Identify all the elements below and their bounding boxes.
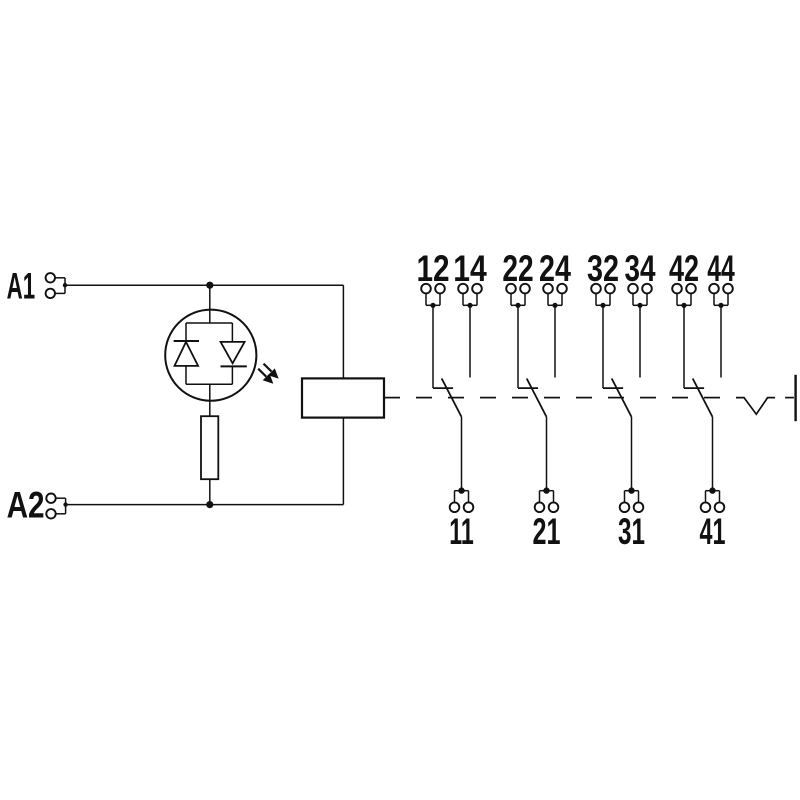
label 21	[533, 511, 561, 552]
label A1	[7, 265, 36, 306]
wire NC 32	[602, 305, 604, 388]
terminal 24	[543, 284, 567, 308]
node A2 junction	[63, 502, 67, 506]
label 12	[416, 248, 449, 289]
wire resistor to A2	[209, 479, 211, 504]
wire coil bottom to A2	[342, 418, 344, 505]
wire common 31	[631, 417, 633, 491]
svg-text:11: 11	[449, 511, 474, 552]
svg-text:32: 32	[587, 248, 619, 289]
terminal 21	[535, 487, 559, 512]
svg-text:21: 21	[533, 511, 561, 552]
wire A1 node to indicator	[209, 285, 211, 323]
resistor R1	[201, 416, 218, 479]
terminal 31	[620, 487, 644, 512]
terminal 32	[591, 284, 615, 308]
terminal symbol A1	[46, 273, 65, 298]
svg-text:24: 24	[539, 248, 571, 289]
wire A2 horizontal	[66, 504, 344, 506]
svg-text:34: 34	[625, 248, 656, 289]
wire NO 24	[554, 305, 556, 377]
wire A1 horizontal	[65, 284, 343, 286]
svg-text:14: 14	[453, 248, 487, 289]
terminal symbol A2	[46, 494, 65, 519]
label 14	[453, 248, 487, 289]
node A1 junction	[63, 283, 67, 287]
svg-text:41: 41	[700, 511, 726, 552]
wire NO 14	[469, 305, 471, 377]
svg-text:31: 31	[618, 511, 645, 552]
label 24	[539, 248, 571, 289]
terminal 22	[506, 284, 530, 308]
NC contact bar pole 3	[603, 387, 623, 389]
terminal 41	[701, 487, 725, 512]
LED D2 (pointing down)	[221, 342, 247, 367]
svg-text:A2: A2	[7, 484, 45, 525]
contact lever pole 2	[527, 379, 547, 417]
label 34	[625, 248, 656, 289]
linkage end bar	[794, 375, 796, 421]
indicator lamp circle	[165, 310, 256, 401]
svg-text:A1: A1	[7, 265, 36, 306]
svg-text:44: 44	[707, 248, 735, 289]
terminal 42	[672, 284, 696, 308]
label 41	[700, 511, 726, 552]
terminal 11	[450, 487, 474, 512]
wire NO 34	[639, 305, 641, 377]
mechanical linkage dashed line	[384, 397, 720, 399]
terminal 12	[421, 284, 445, 308]
relay coil K1	[302, 378, 384, 417]
final dash	[785, 397, 794, 399]
wire NC 12	[432, 305, 434, 388]
actuator V notch	[736, 398, 775, 415]
node branch from resistor	[206, 501, 213, 508]
svg-text:22: 22	[502, 248, 533, 289]
NC contact bar pole 2	[518, 387, 538, 389]
label 44	[707, 248, 735, 289]
svg-text:42: 42	[669, 248, 699, 289]
label 42	[669, 248, 699, 289]
node branch to indicator	[206, 282, 213, 289]
contact lever pole 3	[612, 379, 632, 417]
wire A1 down to coil	[342, 285, 344, 378]
wire indicator to resistor	[209, 384, 211, 416]
terminal 34	[628, 284, 652, 308]
wire common 11	[461, 417, 463, 491]
label 32	[587, 248, 619, 289]
diode bridge frame	[186, 323, 232, 384]
NC contact bar pole 4	[684, 387, 704, 389]
wire NC 42	[683, 305, 685, 388]
NC contact bar pole 1	[433, 387, 453, 389]
svg-text:12: 12	[416, 248, 449, 289]
label A2	[7, 484, 45, 525]
label 11	[449, 511, 474, 552]
wire common 41	[712, 417, 714, 491]
label 22	[502, 248, 533, 289]
suppressor diode D1 (pointing up)	[174, 341, 199, 366]
terminal 14	[458, 284, 482, 308]
terminal 44	[709, 284, 733, 308]
label 31	[618, 511, 645, 552]
wire NO 44	[720, 305, 722, 377]
wire common 21	[546, 417, 548, 491]
contact lever pole 1	[442, 379, 462, 417]
LED light arrows	[258, 364, 278, 384]
wire NC 22	[517, 305, 519, 388]
contact lever pole 4	[693, 379, 713, 417]
